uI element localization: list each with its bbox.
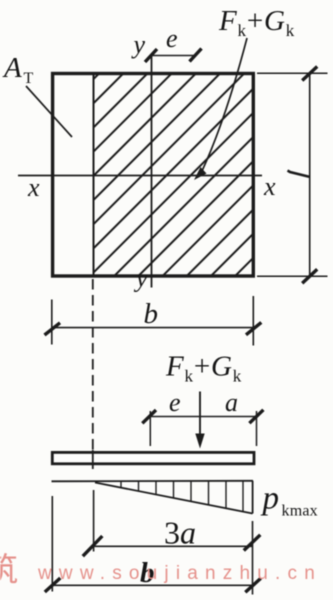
svg-text:Fk+Gk: Fk+Gk <box>218 5 295 40</box>
svg-text:y: y <box>131 30 146 59</box>
svg-text:b: b <box>144 298 159 330</box>
svg-text:3a: 3a <box>164 515 196 551</box>
svg-text:y: y <box>133 264 148 293</box>
svg-text:p: p <box>261 481 280 517</box>
svg-text:A: A <box>2 52 22 84</box>
svg-text:www.soujianzhu.cn: www.soujianzhu.cn <box>37 563 322 584</box>
svg-text:Fk+Gk: Fk+Gk <box>165 351 242 386</box>
svg-text:筑: 筑 <box>0 551 18 588</box>
svg-text:x: x <box>263 172 276 201</box>
svg-text:kmax: kmax <box>282 503 318 520</box>
svg-text:x: x <box>27 173 40 202</box>
svg-text:a: a <box>225 388 238 417</box>
svg-text:e: e <box>166 24 178 53</box>
svg-text:e: e <box>169 388 181 417</box>
svg-text:T: T <box>24 70 34 87</box>
